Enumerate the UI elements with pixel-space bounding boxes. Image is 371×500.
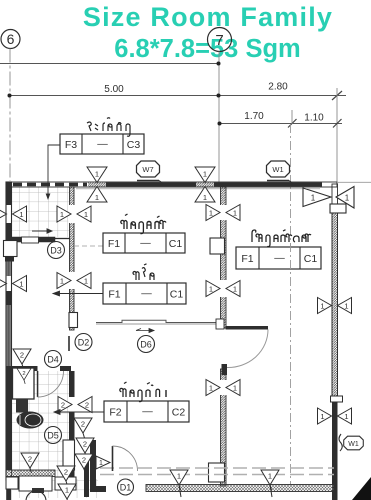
balcony bottom wall (12, 237, 55, 242)
circle D5 (45, 427, 62, 444)
kitchen counter line (96, 320, 216, 322)
top wall hourglass 1 (87, 167, 107, 202)
svg-text:F1: F1 (108, 238, 120, 250)
svg-text:6: 6 (7, 31, 15, 47)
hexagon W1 top left (137, 161, 160, 177)
left wall bowtie balcony (0, 206, 27, 222)
svg-text:—: — (97, 138, 108, 150)
circle D1 (118, 479, 134, 495)
svg-text:F1: F1 (108, 289, 120, 301)
hall wall bowtie 1 (206, 205, 240, 221)
svg-text:C1: C1 (169, 238, 183, 250)
room name: thong phak khoi (hall) (252, 230, 311, 247)
D6 slide arrow (136, 329, 154, 333)
bathroom door D4 leaf + swing (37, 371, 39, 397)
balcony slide arrow (32, 229, 52, 233)
right wall box upper (330, 204, 346, 213)
label box F2-C2 bathroom (104, 401, 189, 422)
svg-text:1.70: 1.70 (244, 111, 264, 122)
room name: hong nam 1 (bathroom) (120, 382, 166, 402)
cistern (16, 399, 28, 413)
svg-text:Size Room Family: Size Room Family (83, 2, 333, 32)
circle D4 (45, 351, 62, 368)
drain tag 2 right of toilet (74, 418, 92, 438)
svg-text:W1: W1 (272, 165, 283, 174)
drain tag 1 bottom edge (58, 484, 76, 500)
left wall (6, 182, 12, 480)
drain tag 2 above bathroom wall (13, 349, 31, 369)
funnel tag 1 on bottom wall left (170, 470, 188, 490)
right wall bowtie 2 (318, 298, 352, 314)
hexagon W1 bottom right (344, 436, 364, 450)
svg-text:D3: D3 (50, 246, 62, 256)
hall wall x223 lower (221, 369, 227, 486)
hall wall x223 upper (221, 187, 227, 328)
bathroom entry door leaf (112, 446, 114, 471)
balcony tile floor (12, 187, 69, 237)
drain tag 2 mid right (76, 438, 94, 458)
room name: ra-biang (balcony) (87, 118, 130, 137)
bathroom top wall (6, 366, 38, 371)
svg-text:F3: F3 (65, 139, 77, 151)
hall wall bowtie 2 (206, 281, 240, 297)
svg-text:D4: D4 (47, 355, 59, 365)
bottom-left walls (6, 470, 55, 477)
svg-text:—: — (274, 252, 285, 264)
svg-text:D6: D6 (140, 340, 152, 350)
hall door arc (227, 330, 268, 368)
corridor dashed lines (100, 467, 334, 469)
svg-text:W7: W7 (142, 165, 153, 174)
label box F1-C1 kitchen (53, 283, 186, 304)
divider wall bowtie upper (57, 206, 91, 222)
north arrow corner (352, 477, 371, 500)
grid line 6 stem (9, 49, 11, 182)
label box F1-C1 living (103, 233, 185, 253)
AC box on left wall (4, 241, 18, 257)
right wall bowtie 3 (318, 408, 352, 424)
svg-text:5.00: 5.00 (104, 84, 124, 95)
svg-text:D1: D1 (120, 483, 132, 493)
right wall box lower (331, 396, 343, 402)
svg-text:W1: W1 (348, 441, 359, 448)
grid bubble 7 (208, 28, 232, 52)
top wall (6, 182, 337, 187)
right boundary vline (336, 88, 338, 184)
svg-text:—: — (142, 406, 153, 418)
room name: hong phak (bedroom) (121, 214, 166, 234)
top wall hourglass 2 (195, 167, 215, 202)
grid bubble 6 (1, 30, 20, 49)
hall door leaf (226, 326, 269, 330)
door tag triangle (96, 456, 110, 469)
dimension line 1.70 / 1.10 (219, 123, 342, 125)
circle D2 (75, 334, 92, 351)
svg-text:F1: F1 (241, 253, 253, 265)
right wall (332, 184, 338, 402)
small circle fixture bottom (26, 491, 46, 500)
svg-text:1: 1 (345, 194, 350, 203)
svg-text:D2: D2 (78, 338, 90, 348)
F2 leader arrow (54, 410, 104, 415)
divider wall bowtie lower (57, 273, 91, 289)
shower basin (13, 368, 35, 399)
svg-text:2.80: 2.80 (268, 82, 288, 93)
hall wall bowtie 3 (206, 380, 240, 396)
bottom wall (146, 485, 334, 492)
dimension line upper (0, 63, 219, 65)
kitchen door leaf D2 (68, 336, 70, 351)
column box on wall x223 (210, 238, 225, 254)
bathroom window bowtie (58, 397, 92, 413)
svg-text:7: 7 (215, 32, 223, 49)
svg-text:—: — (141, 288, 152, 300)
drain tag 2 lower left (21, 453, 39, 473)
bathroom entry door swing (113, 446, 138, 471)
centerline grid dashed (290, 124, 292, 484)
door post box bottom (209, 463, 225, 482)
drain tag 2 on bottom box (57, 466, 75, 486)
drain tag 2 in shower basin (17, 368, 31, 384)
svg-text:F2: F2 (109, 407, 121, 419)
grid line 7 stem (218, 52, 220, 188)
balcony divider wall x71 (70, 187, 75, 330)
left wall bowtie kitchen (0, 276, 27, 292)
room name: khrua (kitchen) (133, 264, 154, 280)
circle D6 (138, 336, 155, 353)
svg-text:1: 1 (311, 194, 316, 203)
circle D3 (48, 242, 65, 259)
hexagon W1 top right (267, 161, 290, 177)
svg-text:C2: C2 (172, 407, 186, 419)
svg-text:—: — (140, 237, 151, 249)
toilet (17, 412, 44, 429)
label box F3-C3 (46, 134, 144, 200)
right wall bowtie 1 (corner, large) (303, 187, 354, 209)
dimension line 5.00 / 2.80 (9, 95, 346, 97)
svg-text:C1: C1 (170, 289, 184, 301)
bathroom right wall (69, 371, 75, 397)
funnel tag 1 on bottom wall right (261, 470, 279, 490)
svg-text:1.10: 1.10 (304, 113, 324, 124)
drain tag 2 lower right (75, 454, 93, 474)
label box F1-C1 hall (236, 247, 321, 269)
svg-text:1: 1 (99, 460, 103, 467)
svg-text:C1: C1 (304, 253, 318, 265)
bathroom tile floor (12, 371, 69, 479)
svg-text:D5: D5 (47, 431, 59, 441)
svg-text:C3: C3 (127, 139, 141, 151)
